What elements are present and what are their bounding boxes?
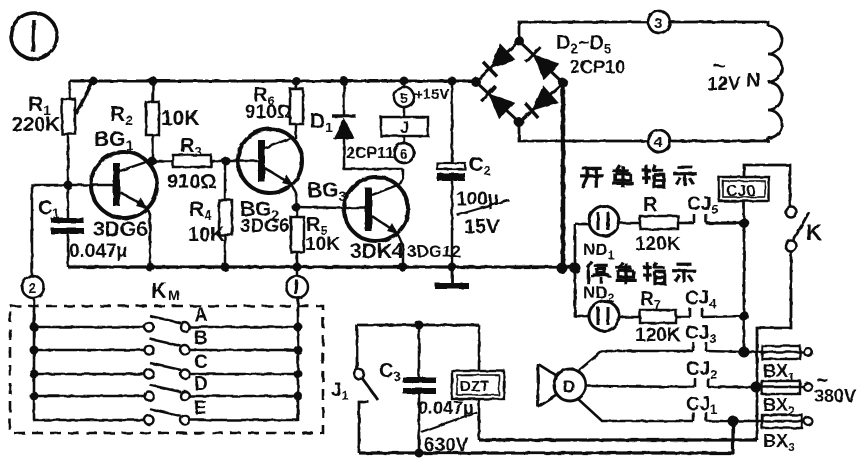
switch contact A [34, 305, 298, 332]
fuse BX3 [733, 415, 812, 454]
switch contact C [34, 352, 298, 379]
switch K [786, 207, 823, 252]
node bus row A [30, 323, 39, 332]
ground symbol [435, 267, 469, 286]
wire motor top lead [577, 351, 693, 372]
svg-text:0.047µ: 0.047µ [69, 241, 128, 262]
svg-text:3DG6: 3DG6 [240, 216, 290, 237]
svg-text:100µ: 100µ [456, 189, 499, 210]
figure label circled 1 [11, 13, 57, 59]
svg-text:10K: 10K [188, 224, 225, 246]
node CJ2/BX2 [751, 382, 762, 393]
terminal circled 2 [22, 276, 44, 298]
resistor R1 220K potentiometer [12, 81, 93, 186]
node BG1 emitter-rail [146, 263, 155, 272]
transistor BG1 3DG6 [91, 128, 157, 267]
svg-text:910Ω: 910Ω [245, 102, 292, 123]
node rail-R6 [292, 77, 301, 86]
wire lower rail from DZT to BX2 branch [479, 438, 757, 441]
wire motor middle lead [586, 386, 695, 387]
fuse BX2 [756, 381, 812, 418]
diode D1 2CP11 [310, 81, 403, 169]
wire Km left bus [33, 298, 36, 421]
svg-text:5: 5 [400, 90, 408, 106]
svg-text:12V: 12V [707, 74, 741, 95]
node R4-rail [221, 263, 230, 272]
relay coil J [381, 107, 428, 137]
node rail-D1 [340, 77, 349, 86]
resistor R2 10K [110, 81, 200, 161]
svg-text:J: J [400, 118, 409, 137]
svg-text:15V: 15V [464, 216, 500, 238]
terminal circled 6 [394, 136, 414, 163]
contact CJ1 [686, 394, 733, 421]
wire bridge bottom to terminal 4 [519, 122, 648, 141]
capacitor C3 0.047u/630V [379, 325, 477, 456]
svg-text:D2~D5: D2~D5 [556, 32, 611, 56]
bridge rectifier D2~D5 2CP10 [471, 32, 625, 127]
svg-text:2CP11: 2CP11 [346, 145, 394, 162]
resistor R7 120K [619, 289, 681, 346]
svg-text:N: N [746, 70, 760, 92]
contact CJ2 [686, 359, 756, 387]
wire K to BX1 node [757, 252, 791, 440]
terminal circled 4 [648, 130, 670, 152]
node CJ3/BX1 [739, 347, 750, 358]
svg-text:10K: 10K [161, 107, 200, 130]
node bus row B [30, 346, 39, 355]
label Km [151, 278, 180, 303]
switch contact B [34, 328, 298, 355]
node C3 bottom [415, 449, 424, 458]
resistor R4 10K [188, 161, 232, 267]
neon lamp ND2 [583, 283, 619, 331]
svg-text:CJ0: CJ0 [726, 183, 755, 200]
node CJ4-CJ0 [739, 311, 749, 321]
fuse BX1 [744, 346, 812, 384]
svg-text:380V: 380V [814, 386, 856, 406]
svg-text:D: D [194, 374, 208, 395]
wire Km right bus [297, 298, 300, 421]
svg-text:B: B [194, 328, 208, 349]
timer module DZT [452, 325, 504, 440]
relay coil CJ0 [719, 177, 769, 201]
switch J1 [331, 325, 378, 453]
svg-text:3DG6: 3DG6 [93, 218, 148, 241]
capacitor C2 100u/15V electrolytic [437, 81, 509, 267]
wire motor bottom lead [577, 398, 693, 421]
svg-text:M: M [168, 287, 180, 303]
Km contact block dashed box [10, 306, 323, 433]
svg-text:6: 6 [400, 146, 408, 162]
wire terminal 4 to winding [670, 138, 768, 141]
svg-text:DZT: DZT [460, 378, 489, 395]
svg-text:K: K [151, 278, 167, 303]
svg-text:2: 2 [28, 280, 36, 297]
resistor R 120K [619, 194, 681, 255]
node BG2 emitter/R5/BG3 base [292, 203, 301, 212]
svg-text:910Ω: 910Ω [167, 171, 216, 193]
node rail-R1 wiper [89, 77, 98, 86]
contact CJ3 [685, 323, 744, 352]
wire timer top link [357, 324, 479, 327]
motor D [538, 364, 586, 407]
svg-text:E: E [194, 398, 207, 419]
label ~380V [814, 370, 856, 406]
node C2/ground on rail [448, 263, 457, 272]
terminal circled 3 [648, 11, 670, 33]
svg-text:0.047µ: 0.047µ [418, 398, 473, 418]
transistor BG3 3DK4 [296, 169, 461, 267]
node R5-rail [293, 263, 302, 272]
svg-text:C: C [194, 352, 208, 373]
node BG3 emitter-rail [399, 263, 408, 272]
transistor BG2 3DG6 [238, 129, 302, 237]
node rail-J [400, 77, 409, 86]
wire ND branch vertical [575, 224, 590, 316]
capacitor C1 0.047u [38, 185, 128, 267]
wire terminal 3 to winding [670, 22, 768, 26]
svg-text:K: K [806, 220, 822, 245]
resistor R5 10K [291, 207, 340, 267]
wire CJ0 bottom drop [743, 201, 746, 353]
svg-text:R: R [643, 194, 658, 216]
neon lamp ND1 [575, 206, 619, 262]
svg-text:3DK4: 3DK4 [350, 240, 404, 263]
terminal circled 1 small [286, 276, 308, 298]
node bus row D [30, 392, 39, 401]
node ND branch [570, 263, 581, 274]
svg-text:120K: 120K [635, 325, 681, 346]
node R1/C1/base junction [64, 181, 73, 190]
node rail-C2 [448, 77, 457, 86]
wire bridge negative to common rail [561, 83, 566, 268]
wire +15V top rail [70, 80, 477, 83]
svg-text:3: 3 [654, 15, 662, 32]
node BG1 collector [148, 157, 157, 166]
resistor R3 910ohm [152, 135, 258, 193]
node CJ5-CJ0 [739, 218, 749, 228]
svg-text:220K: 220K [12, 114, 60, 136]
svg-text:D: D [563, 377, 575, 396]
wire bottom rail from J1 to BX3 branch [359, 421, 733, 453]
node R3/R4/BG2 base [222, 157, 231, 166]
transformer secondary winding 12V N [707, 26, 782, 138]
contact CJ5 [678, 194, 744, 223]
wire BG1 base node to left [32, 185, 91, 276]
wire bridge top to terminal 3 [519, 22, 648, 41]
node rail end [557, 263, 568, 274]
node C3 top [415, 321, 424, 330]
label 开车指示 (start indicator) [580, 165, 697, 188]
label 停车指示 (stop indicator) [587, 261, 696, 285]
svg-text:+15V: +15V [414, 86, 449, 103]
terminal circled 5 and +15V label [394, 81, 449, 107]
resistor R6 910ohm [245, 81, 303, 139]
node rail-R2 [149, 77, 158, 86]
svg-text:10K: 10K [305, 234, 340, 255]
svg-text:A: A [194, 305, 208, 326]
node bus row C [30, 370, 39, 379]
contact CJ4 [676, 288, 744, 317]
svg-text:120K: 120K [635, 234, 681, 255]
node CJ1/BX3 [728, 416, 739, 427]
switch contact D [34, 374, 298, 401]
svg-text:4: 4 [654, 134, 663, 151]
svg-text:2CP10: 2CP10 [570, 57, 625, 77]
switch contact E [34, 398, 298, 425]
wire common bottom rail [68, 265, 575, 268]
wire CJ0 top to switch K [744, 165, 790, 206]
